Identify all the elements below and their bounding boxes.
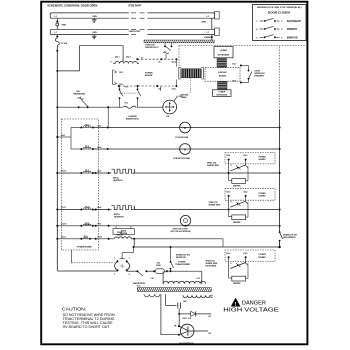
svg-text:(20)-2: (20)-2 bbox=[126, 57, 131, 59]
svg-text:RECT. F 08: RECT. F 08 bbox=[183, 318, 192, 320]
svg-text:TRANSFORMER: TRANSFORMER bbox=[175, 263, 190, 266]
svg-text:CN3-1: CN3-1 bbox=[172, 89, 177, 91]
svg-text:KEYBOARD: KEYBOARD bbox=[216, 93, 227, 96]
svg-text:RY-1: RY-1 bbox=[125, 87, 129, 89]
svg-text:C30: C30 bbox=[151, 278, 154, 280]
svg-text:RELAY: RELAY bbox=[117, 233, 124, 236]
svg-text:(HEATER BOX): (HEATER BOX) bbox=[126, 118, 139, 121]
svg-text:RY-1: RY-1 bbox=[85, 125, 89, 127]
svg-text:INTERLOCK SW TOP VIEW(A-A'): INTERLOCK SW TOP VIEW(A-A') bbox=[257, 6, 302, 9]
svg-text:BOARD: BOARD bbox=[259, 195, 267, 198]
svg-text:BOARD: BOARD bbox=[259, 158, 267, 161]
svg-text:(20)-1: (20)-1 bbox=[115, 57, 120, 59]
svg-text:BOARD: BOARD bbox=[145, 74, 153, 77]
svg-text:CN3-2: CN3-2 bbox=[172, 62, 177, 64]
svg-text:1: 1 bbox=[114, 257, 115, 259]
svg-text:HIGH VOLTAGE: HIGH VOLTAGE bbox=[223, 307, 279, 313]
svg-text:HV BOARD TO SHORT OUT: HV BOARD TO SHORT OUT bbox=[63, 325, 110, 329]
svg-text:CN-1: CN-1 bbox=[61, 135, 65, 137]
svg-text:DANGER: DANGER bbox=[242, 301, 266, 307]
svg-text:CN-18: CN-18 bbox=[61, 223, 66, 225]
svg-text:4: 4 bbox=[129, 273, 130, 276]
svg-text:FUSE: FUSE bbox=[156, 265, 162, 267]
svg-text:GRN: GRN bbox=[202, 22, 207, 24]
svg-text:CN-2: CN-2 bbox=[243, 253, 247, 255]
svg-text:HEATER A: HEATER A bbox=[113, 179, 123, 182]
svg-text:CN-2: CN-2 bbox=[243, 192, 247, 194]
svg-text:DISPLAY: DISPLAY bbox=[218, 71, 227, 74]
svg-text:CN-2: CN-2 bbox=[243, 155, 247, 157]
svg-text:UPPER: UPPER bbox=[220, 50, 227, 52]
svg-text:(MONITOR): (MONITOR) bbox=[176, 257, 186, 259]
svg-text:CN-11: CN-11 bbox=[97, 236, 102, 238]
svg-text:CN-3: CN-3 bbox=[232, 63, 236, 65]
svg-text:W/HEAT SINK: W/HEAT SINK bbox=[209, 204, 221, 207]
svg-text:SCHEMATIC CONDITION: DOOR OPEN: SCHEMATIC CONDITION: DOOR OPEN bbox=[47, 4, 97, 8]
svg-text:RY-6: RY-6 bbox=[84, 236, 88, 238]
svg-text:BOARD: BOARD bbox=[259, 256, 267, 259]
svg-text:J32: J32 bbox=[208, 333, 211, 335]
svg-text:DAMPER: DAMPER bbox=[233, 221, 241, 224]
svg-text:J31: J31 bbox=[208, 316, 211, 318]
svg-text:MAGNETRON: MAGNETRON bbox=[179, 342, 194, 345]
svg-text:FM: FM bbox=[166, 116, 169, 118]
svg-text:CAUTION:: CAUTION: bbox=[62, 306, 86, 311]
svg-text:CN-5: CN-5 bbox=[97, 171, 101, 173]
svg-text:GRN: GRN bbox=[92, 16, 97, 18]
svg-text:POWER BOARD: POWER BOARD bbox=[77, 246, 92, 249]
svg-text:J30: J30 bbox=[210, 297, 213, 299]
svg-text:(PRIMARY): (PRIMARY) bbox=[255, 74, 265, 77]
svg-text:TCO: TCO bbox=[137, 286, 141, 288]
svg-text:DAMPER: DAMPER bbox=[233, 282, 241, 285]
svg-text:CN-6: CN-6 bbox=[97, 207, 101, 209]
svg-text:BOARD: BOARD bbox=[219, 75, 227, 78]
svg-text:CN-15: CN-15 bbox=[61, 171, 66, 173]
svg-text:LOWER: LOWER bbox=[218, 92, 226, 94]
svg-text:(HV BOARD): (HV BOARD) bbox=[206, 265, 217, 268]
svg-text:THERMOSTAT: THERMOSTAT bbox=[73, 93, 86, 96]
svg-text:PRIMARY: PRIMARY bbox=[287, 28, 298, 31]
svg-text:W/HEAT SINK: W/HEAT SINK bbox=[207, 164, 219, 167]
svg-text:CN-13: CN-13 bbox=[61, 236, 66, 238]
svg-text:RY-3: RY-3 bbox=[85, 170, 89, 172]
svg-text:KEYBOARD: KEYBOARD bbox=[218, 54, 230, 57]
svg-text:HEATER B: HEATER B bbox=[114, 216, 124, 219]
svg-text:ITEM PART: ITEM PART bbox=[129, 4, 142, 8]
svg-text:(NOT ON ALL MODELS): (NOT ON ALL MODELS) bbox=[171, 230, 192, 233]
svg-text:SECONDARY: SECONDARY bbox=[287, 20, 302, 23]
svg-text:CABLE: CABLE bbox=[181, 96, 188, 99]
svg-text:RY-2: RY-2 bbox=[85, 146, 89, 148]
svg-text:RY-4: RY-4 bbox=[85, 206, 89, 209]
svg-text:CENTER DUCT: CENTER DUCT bbox=[145, 47, 159, 49]
svg-text:B1: B1 bbox=[159, 62, 161, 64]
svg-text:F1 15A: F1 15A bbox=[61, 42, 68, 45]
svg-text:GRN: GRN bbox=[92, 32, 97, 34]
svg-text:(SECONDARY): (SECONDARY) bbox=[283, 236, 296, 239]
svg-text:COOLING FAN: COOLING FAN bbox=[175, 136, 189, 139]
svg-text:CN-2: CN-2 bbox=[226, 192, 230, 194]
svg-text:CONVECTION FAN: CONVECTION FAN bbox=[173, 157, 191, 160]
svg-text:DAMPER: DAMPER bbox=[233, 185, 241, 188]
svg-text:CN-2: CN-2 bbox=[226, 253, 230, 255]
svg-text:RY-5: RY-5 bbox=[85, 223, 89, 225]
svg-text:CN-8: CN-8 bbox=[97, 223, 101, 225]
svg-text:MONITOR: MONITOR bbox=[287, 37, 298, 39]
svg-text:2: 2 bbox=[114, 274, 115, 276]
svg-text:CN-1: CN-1 bbox=[119, 72, 123, 74]
svg-text:CN-4: CN-4 bbox=[232, 79, 236, 82]
svg-text:J2: J2 bbox=[141, 57, 143, 59]
svg-text:CN-17: CN-17 bbox=[61, 207, 66, 209]
svg-text:LINE FILTER: LINE FILTER bbox=[129, 31, 141, 33]
svg-text:DOOR CLOSED: DOOR CLOSED bbox=[268, 13, 291, 15]
svg-text:C30: C30 bbox=[197, 278, 200, 280]
svg-text:CN-2: CN-2 bbox=[226, 155, 230, 157]
svg-text:3: 3 bbox=[129, 257, 130, 259]
svg-text:GRN: GRN bbox=[62, 25, 67, 27]
